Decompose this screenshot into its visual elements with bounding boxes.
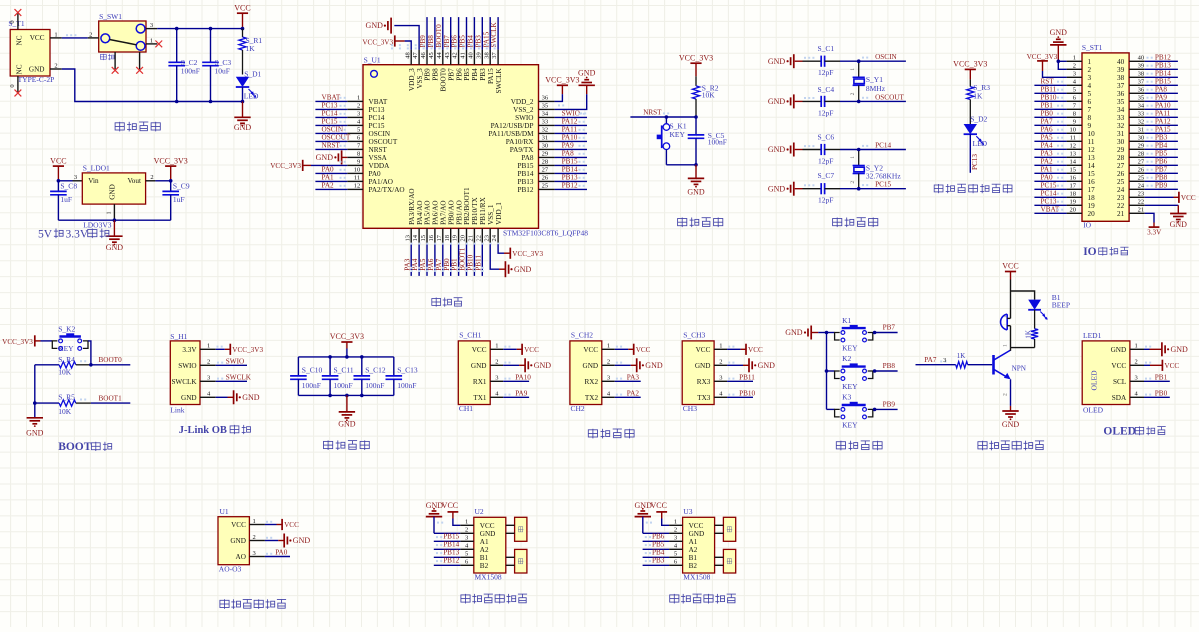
svg-text:NC: NC: [16, 64, 24, 74]
pushbutton K2 KEY: [827, 354, 873, 391]
wire U1 pin36 VDD_2 to VCC_3V3 port: [545, 76, 579, 107]
power port VCC_3V3 indicator: [953, 60, 987, 80]
power port VCC_3V3 filter: [330, 332, 364, 357]
svg-text:S_U1: S_U1: [364, 56, 381, 65]
svg-text:GND: GND: [234, 123, 252, 132]
svg-text:7: 7: [1088, 106, 1092, 114]
svg-text:GND: GND: [1171, 345, 1189, 354]
svg-text:IO: IO: [1083, 246, 1096, 258]
svg-text:4: 4: [1088, 82, 1092, 90]
svg-text:PB0: PB0: [1041, 109, 1054, 117]
svg-text:17: 17: [1070, 183, 1077, 190]
svg-text:100nF: 100nF: [181, 67, 200, 76]
wire SCL to PB1: [1144, 373, 1170, 381]
svg-text:33: 33: [1138, 111, 1145, 118]
svg-text:15: 15: [1088, 170, 1096, 178]
svg-text:3: 3: [943, 357, 946, 364]
svg-text:PA11: PA11: [562, 125, 578, 133]
svg-text:KEY: KEY: [842, 344, 858, 353]
wire left rail boot: [33, 365, 37, 417]
svg-text:PC14: PC14: [1041, 189, 1057, 197]
svg-text:20: 20: [460, 235, 467, 242]
svg-text:22: 22: [1138, 199, 1145, 206]
svg-text:GND: GND: [785, 328, 803, 337]
svg-text:48: 48: [404, 52, 411, 59]
svg-text:5: 5: [674, 551, 677, 558]
svg-text:PB14: PB14: [562, 165, 578, 173]
U1 left pins 1-12 with names: [347, 95, 404, 194]
svg-text:PB11: PB11: [1041, 85, 1057, 93]
svg-text:GND: GND: [578, 69, 596, 78]
wire SWCLK net label: [216, 373, 252, 381]
svg-text:PB6: PB6: [652, 533, 665, 541]
svg-text:RX2: RX2: [585, 378, 599, 386]
pushbutton K1 reset KEY: [657, 117, 696, 165]
svg-text:SWIO: SWIO: [515, 114, 533, 122]
svg-text:21: 21: [468, 235, 475, 242]
wire PA7 base net: [916, 356, 956, 365]
svg-text:PB7: PB7: [883, 324, 896, 332]
svg-text:VCC: VCC: [696, 346, 711, 354]
ground symbol at H1 pin 4: [216, 390, 260, 404]
svg-text:PA2: PA2: [1041, 157, 1054, 165]
power port VCC at U1 pin 1: [265, 519, 299, 530]
svg-text:PA12/USB/DP: PA12/USB/DP: [491, 122, 534, 130]
svg-text:37: 37: [1138, 79, 1145, 86]
svg-text:PB12: PB12: [1155, 53, 1171, 61]
svg-text:OLED: OLED: [1103, 426, 1136, 438]
svg-text:SWIO: SWIO: [562, 109, 580, 117]
capacitor C5 100nF: [688, 117, 727, 165]
svg-text:PB15: PB15: [562, 157, 578, 165]
svg-text:S_ST1: S_ST1: [1082, 43, 1103, 52]
ST1 left pin stubs 1-20: [1067, 55, 1082, 214]
ground symbol motor U3: [635, 501, 670, 533]
capacitor C11 100nF: [322, 357, 354, 396]
svg-text:1K: 1K: [1024, 330, 1032, 339]
svg-text:1: 1: [150, 37, 153, 44]
svg-text:21: 21: [1117, 210, 1125, 218]
svg-text:23: 23: [1138, 191, 1145, 198]
svg-text:RX3: RX3: [697, 378, 711, 386]
svg-text:SDA: SDA: [1112, 394, 1127, 402]
ground symbol at LED1 pin 1: [1144, 342, 1188, 356]
wires and net labels ST1 left rows 4-20: [1034, 77, 1066, 213]
svg-text:S_CH3: S_CH3: [683, 330, 705, 339]
svg-text:PB3: PB3: [1155, 133, 1168, 141]
svg-text:PA0: PA0: [322, 165, 335, 173]
svg-text:15: 15: [1070, 167, 1077, 174]
svg-text:VCC: VCC: [748, 346, 763, 354]
pin 3 of SW1: [146, 22, 157, 29]
svg-text:PA3: PA3: [1041, 149, 1054, 157]
svg-text:B1: B1: [689, 554, 698, 562]
svg-text:VCC: VCC: [284, 521, 299, 529]
svg-text:9: 9: [1073, 119, 1076, 126]
svg-text:S_C10: S_C10: [302, 365, 323, 374]
svg-text:S_D2: S_D2: [970, 115, 987, 124]
svg-text:35: 35: [1117, 98, 1125, 106]
svg-text:100nF: 100nF: [334, 381, 353, 390]
wire TX1 to PA9: [503, 389, 529, 397]
svg-text:AO: AO: [236, 553, 246, 561]
svg-text:8: 8: [1088, 114, 1092, 122]
svg-text:IO: IO: [1083, 221, 1091, 230]
svg-text:U3: U3: [683, 507, 692, 516]
svg-text:34: 34: [542, 111, 549, 118]
ground symbol filter: [338, 395, 356, 428]
svg-text:SWCLK: SWCLK: [495, 67, 503, 93]
svg-text:38: 38: [1117, 74, 1125, 82]
svg-text:VDD_1: VDD_1: [495, 202, 503, 225]
svg-text:PB13: PB13: [518, 178, 534, 186]
resistor R2 10K: [692, 76, 718, 117]
capacitor C3 10uF: [202, 29, 231, 102]
svg-text:42: 42: [452, 52, 459, 59]
wires and net labels U1 left rows 10-12: [315, 165, 347, 189]
svg-text:VCC_3V3: VCC_3V3: [270, 162, 301, 170]
svg-text:S_R4: S_R4: [58, 355, 75, 364]
title dian-yuan power circuit: [115, 122, 160, 132]
svg-text:PC15: PC15: [369, 122, 385, 130]
svg-text:19: 19: [1088, 202, 1096, 210]
svg-text:PA3: PA3: [627, 373, 640, 381]
svg-text:GND: GND: [316, 153, 334, 162]
LED D2: [964, 115, 988, 149]
svg-text:1: 1: [253, 518, 256, 525]
wire NRST net: [630, 108, 696, 117]
svg-text:1: 1: [465, 519, 468, 526]
svg-text:PA0: PA0: [369, 170, 382, 178]
wire SW1 pin3 to VCC node: [157, 28, 242, 30]
wire RX1 to PA10: [503, 373, 531, 381]
svg-text:S_C7: S_C7: [818, 171, 835, 180]
svg-text:PA9: PA9: [562, 141, 575, 149]
svg-text:3: 3: [495, 375, 498, 382]
svg-text:23: 23: [1117, 194, 1125, 202]
svg-text:10: 10: [1070, 127, 1077, 134]
svg-text:21: 21: [1138, 207, 1145, 214]
svg-text:S_C13: S_C13: [397, 365, 418, 374]
svg-text:1K: 1K: [246, 44, 256, 53]
wire K3 to PB9: [873, 401, 898, 412]
capacitor C9 1uF: [162, 181, 189, 220]
svg-text:35: 35: [542, 103, 549, 110]
svg-text:VCC: VCC: [650, 501, 666, 510]
svg-text:12pF: 12pF: [818, 108, 833, 117]
svg-text:PA0: PA0: [275, 549, 288, 557]
svg-text:3: 3: [357, 111, 360, 118]
svg-text:24: 24: [491, 234, 498, 241]
crystal Y1 8MHz: [850, 61, 886, 101]
wire PB13 to U2 pin 5: [434, 549, 461, 558]
ground symbol motor U2: [426, 501, 461, 533]
svg-text:34: 34: [1117, 106, 1125, 114]
U1 right pins 36-25 with names: [488, 95, 554, 194]
svg-text:11: 11: [354, 175, 360, 182]
svg-text:18: 18: [1088, 194, 1096, 202]
wire RX3 to PB11: [727, 373, 755, 381]
svg-text:37: 37: [491, 52, 498, 59]
power port VCC at CH2 pin 1: [615, 344, 651, 355]
svg-text:5: 5: [357, 127, 360, 134]
junction dot BOOT0 node: [89, 363, 93, 367]
svg-text:S_SW1: S_SW1: [99, 12, 122, 21]
svg-text:8: 8: [357, 151, 360, 158]
svg-text:35: 35: [1138, 95, 1145, 102]
pin 1 of SW1 with no-connect X: [146, 37, 162, 47]
svg-text:2: 2: [850, 92, 856, 95]
resistor R3 1K: [967, 79, 991, 124]
svg-text:NRST: NRST: [643, 108, 662, 116]
capacitor C10 100nF: [290, 357, 322, 396]
power port 3.3V at ST1 pin 21: [1145, 213, 1162, 236]
svg-text:S_C8: S_C8: [60, 181, 77, 190]
svg-text:11: 11: [1070, 135, 1076, 142]
ground symbol at ST1 pin 22: [1145, 205, 1187, 229]
power port VCC_3V3 boot: [2, 335, 40, 346]
svg-text:28: 28: [1117, 154, 1125, 162]
svg-text:PC15: PC15: [1041, 181, 1057, 189]
svg-text:11: 11: [1088, 138, 1095, 146]
wire PB5 to U3 pin 4: [643, 541, 670, 550]
svg-text:GND: GND: [514, 265, 532, 274]
svg-text:GND: GND: [695, 362, 711, 370]
svg-text:PA3/RX/AO: PA3/RX/AO: [408, 188, 416, 224]
svg-text:PB15: PB15: [1155, 77, 1171, 85]
svg-text:PC14: PC14: [369, 114, 385, 122]
svg-text:K1: K1: [842, 316, 851, 325]
capacitor C2 100nF: [168, 29, 199, 102]
svg-text:S_H1: S_H1: [170, 332, 187, 341]
svg-text:47: 47: [412, 52, 419, 59]
svg-text:PB6: PB6: [455, 68, 463, 81]
wire K2 to PB8: [873, 362, 898, 373]
svg-text:BOOT: BOOT: [58, 441, 92, 453]
capacitor C4 12pF with GND and OSCOUT wire: [768, 85, 906, 117]
title jing-zhen crystal circuit: [833, 218, 878, 228]
svg-text:CH2: CH2: [571, 404, 585, 413]
svg-text:43: 43: [444, 52, 451, 59]
svg-text:1: 1: [357, 95, 360, 102]
svg-text:PA6: PA6: [1041, 125, 1054, 133]
resistor 1K base alarm: [956, 352, 993, 368]
svg-text:37: 37: [1117, 82, 1125, 90]
wire PB3 to U3 pin 6: [643, 557, 670, 566]
svg-text:24: 24: [1138, 183, 1145, 190]
svg-text:GND: GND: [1050, 28, 1068, 37]
svg-text:20: 20: [1070, 207, 1077, 214]
connector CH2 serial port body: [570, 330, 615, 413]
svg-text:2: 2: [253, 534, 256, 541]
svg-text:PC13: PC13: [1041, 197, 1057, 205]
wire PB12 to U2 pin 6: [434, 557, 461, 566]
svg-text:12pF: 12pF: [818, 196, 833, 205]
wire TX3 to PB10: [727, 389, 755, 397]
power port VCC at ST1 pin 23: [1145, 192, 1196, 203]
svg-text:26: 26: [1117, 170, 1125, 178]
svg-text:VCC: VCC: [1111, 362, 1126, 370]
svg-text:+: +: [1004, 314, 1007, 320]
pin 2 GND of T1: [50, 62, 62, 69]
svg-text:PA12: PA12: [562, 117, 578, 125]
svg-text:BOOT1: BOOT1: [99, 395, 123, 403]
svg-text:13: 13: [1088, 154, 1096, 162]
svg-text:PB15: PB15: [518, 162, 534, 170]
wire AO to PA0: [265, 549, 290, 557]
svg-text:TYPE-C-2P: TYPE-C-2P: [18, 75, 55, 84]
svg-text:PA9: PA9: [515, 389, 528, 397]
svg-text:2: 2: [674, 527, 677, 534]
svg-text:MX1508: MX1508: [475, 573, 502, 582]
wire PB4 to U3 pin 5: [643, 549, 670, 558]
svg-text:U2: U2: [475, 507, 484, 516]
svg-text:VCC: VCC: [1164, 362, 1179, 370]
wire keys left rail: [825, 331, 829, 410]
svg-text:S_D1: S_D1: [244, 69, 261, 78]
svg-text:1: 1: [850, 156, 856, 159]
svg-text:PB12: PB12: [518, 186, 534, 194]
title zhu-xin-pian main chip: [432, 298, 463, 307]
wires and net labels U1 left rows 1-7: [315, 93, 350, 149]
svg-text:3: 3: [253, 550, 256, 557]
svg-text:PA5: PA5: [1041, 133, 1054, 141]
capacitor C1 12pF with GND and OSCIN wire: [768, 44, 906, 77]
svg-text:PA1/AO: PA1/AO: [369, 178, 394, 186]
svg-text:PB10: PB10: [739, 389, 755, 397]
svg-text:J-Link OB: J-Link OB: [179, 425, 227, 436]
svg-text:100nF: 100nF: [365, 381, 384, 390]
ground symbol boot: [26, 418, 44, 438]
svg-text:B2: B2: [689, 562, 698, 570]
svg-text:OSCIN: OSCIN: [875, 53, 897, 61]
svg-text:PB6: PB6: [1155, 157, 1168, 165]
svg-text:PB5: PB5: [1155, 149, 1168, 157]
svg-text:28: 28: [542, 159, 549, 166]
svg-text:PB4: PB4: [1155, 141, 1168, 149]
svg-text:STM32F103C8T6_LQFP48: STM32F103C8T6_LQFP48: [503, 229, 588, 238]
module U1 AO-O3 body: [218, 507, 265, 573]
svg-text:18: 18: [1070, 191, 1077, 198]
svg-text:32.768KHz: 32.768KHz: [866, 172, 901, 181]
svg-text:PA15: PA15: [1155, 125, 1171, 133]
svg-text:PA5/AO: PA5/AO: [424, 200, 432, 225]
wire BOOT0 net label: [80, 356, 130, 365]
LED B1 BEEP: [1028, 293, 1070, 320]
svg-text:PB0: PB0: [443, 258, 451, 271]
svg-text:VSSA: VSSA: [369, 154, 388, 162]
svg-text:16: 16: [428, 234, 435, 241]
svg-text:3: 3: [465, 535, 468, 542]
svg-text:VCC: VCC: [442, 501, 458, 510]
svg-text:1: 1: [1073, 55, 1076, 62]
regulator LDO1: [82, 164, 145, 230]
svg-text:VSS_3: VSS_3: [416, 68, 424, 89]
svg-text:GND: GND: [1170, 220, 1188, 229]
svg-text:12pF: 12pF: [818, 156, 833, 165]
title DC motor circuit U2: [461, 594, 527, 604]
wire PB14 to U2 pin 4: [434, 541, 461, 550]
power port VCC for LDO input: [50, 156, 66, 181]
svg-text:GND: GND: [583, 362, 599, 370]
svg-text:2: 2: [1088, 66, 1092, 74]
svg-text:22: 22: [1117, 202, 1125, 210]
title DC motor circuit U3: [670, 594, 736, 604]
wire TX2 to PA2: [615, 389, 641, 397]
svg-text:33: 33: [1117, 114, 1125, 122]
svg-text:3: 3: [607, 375, 610, 382]
svg-text:PA5: PA5: [419, 258, 427, 271]
svg-text:RX1: RX1: [473, 378, 487, 386]
svg-text:TX3: TX3: [697, 394, 711, 402]
svg-text:SWCLK: SWCLK: [171, 378, 197, 386]
svg-text:3: 3: [74, 174, 77, 181]
svg-text:GND: GND: [534, 361, 552, 370]
IC U1 STM32F103C8T6_LQFP48 body: [363, 56, 588, 238]
svg-text:22: 22: [475, 235, 482, 242]
svg-text:3: 3: [1088, 74, 1092, 82]
svg-text:3.3V: 3.3V: [1147, 229, 1162, 237]
wire D2 to PC13 net label vertical: [970, 134, 979, 173]
svg-text:PA9/TX: PA9/TX: [510, 146, 535, 154]
svg-text:14: 14: [1088, 162, 1096, 170]
svg-text:40: 40: [1138, 55, 1145, 62]
svg-text:SWIO: SWIO: [226, 357, 244, 365]
ST1 right pin stubs 40-21: [1129, 55, 1145, 214]
svg-text:BOOT0: BOOT0: [440, 68, 448, 92]
svg-text:25: 25: [1138, 175, 1145, 182]
wire LED branch to collector node: [1011, 347, 1035, 349]
svg-text:GND: GND: [687, 188, 705, 197]
svg-text:0: 0: [9, 84, 16, 87]
svg-text:10K: 10K: [58, 367, 71, 376]
svg-text:26: 26: [542, 175, 549, 182]
svg-text:PA1: PA1: [322, 173, 335, 181]
svg-text:38: 38: [483, 52, 490, 59]
svg-text:1: 1: [1002, 344, 1008, 347]
svg-text:PA10: PA10: [515, 373, 531, 381]
wire U1 pin24 VDD_1 to VCC_3V3 port: [498, 244, 543, 258]
svg-text:KEY: KEY: [842, 382, 858, 391]
svg-text:36: 36: [1138, 87, 1145, 94]
title sheng-guang alarm circuit: [978, 441, 1044, 451]
pushbutton K1 KEY: [827, 316, 873, 353]
wire BOOT1 net label: [80, 395, 130, 404]
svg-text:VBAT: VBAT: [369, 98, 388, 106]
svg-text:PA1: PA1: [1041, 165, 1054, 173]
svg-text:PB12: PB12: [562, 181, 578, 189]
title OLED display: [1103, 426, 1165, 438]
svg-text:3.3V: 3.3V: [182, 346, 197, 354]
label kai-guan switch chinese: [100, 54, 114, 60]
svg-text:1K: 1K: [957, 352, 966, 360]
svg-text:LED: LED: [973, 139, 988, 148]
svg-text:VSS_2: VSS_2: [513, 106, 534, 114]
svg-text:VCC: VCC: [472, 346, 487, 354]
svg-text:VCC_3V3: VCC_3V3: [953, 60, 987, 69]
wire T1 pin2 to GND rail: [62, 69, 243, 102]
svg-text:PB14: PB14: [1155, 69, 1171, 77]
power port VCC top: [234, 3, 250, 28]
svg-text:46: 46: [420, 52, 427, 59]
svg-text:2: 2: [54, 62, 57, 69]
wire filter top rail: [298, 355, 393, 359]
svg-text:27: 27: [542, 167, 549, 174]
svg-text:PB13: PB13: [562, 173, 578, 181]
title J-Link OB interface: [179, 425, 251, 436]
motor connector 2 for U2: [506, 549, 527, 573]
svg-text:OSCOUT: OSCOUT: [369, 138, 398, 146]
